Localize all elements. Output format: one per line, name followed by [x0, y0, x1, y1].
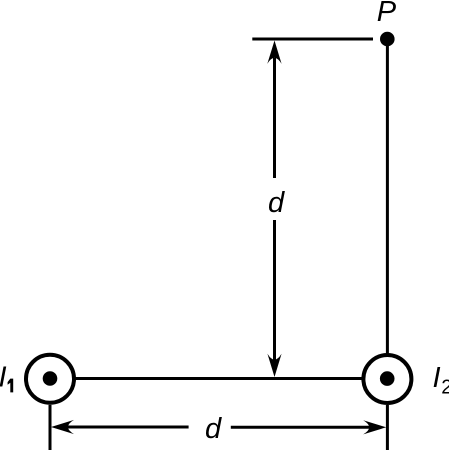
wire: horizontal dimension shaft left — [68, 426, 189, 429]
node P dot — [380, 32, 395, 47]
svg-text:2: 2 — [441, 377, 449, 399]
conductor I2 (current out of page) — [363, 355, 411, 403]
wire: tick below I2 — [386, 405, 389, 450]
svg-text:I: I — [433, 362, 441, 394]
wire: vertical line from P down to I2 — [386, 45, 389, 354]
wire: horizontal dimension shaft right — [231, 426, 370, 429]
dimension arrow right (horizontal d) — [363, 420, 386, 434]
wire: horizontal line connecting I1 and I2 — [60, 377, 380, 380]
svg-text:I: I — [0, 362, 7, 394]
svg-text:P: P — [377, 0, 397, 28]
dimension arrow up (vertical d) — [267, 41, 281, 64]
dimension arrow left (horizontal d) — [51, 420, 74, 434]
wire: vertical dimension shaft upper — [273, 58, 276, 178]
svg-text:d: d — [205, 413, 222, 445]
wire: top horizontal reference line — [252, 38, 373, 41]
svg-text:d: d — [268, 187, 285, 219]
wire: vertical dimension shaft lower — [273, 220, 276, 360]
dimension arrow down (vertical d) — [267, 354, 281, 377]
conductor I1 (current out of page) — [26, 355, 74, 403]
wire: tick below I1 — [49, 405, 52, 450]
